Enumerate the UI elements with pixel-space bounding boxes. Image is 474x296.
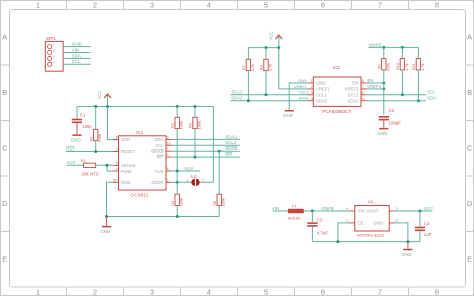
- wire AUX to R1: [67, 164, 84, 166]
- net label SDA: [72, 53, 81, 58]
- svg-text:E: E: [467, 255, 472, 264]
- ground symbol GND under rail: [100, 217, 111, 234]
- IC2 pin stubs right: [361, 83, 367, 101]
- svg-text:WAKE: WAKE: [225, 146, 238, 151]
- svg-text:SCL: SCL: [427, 90, 436, 95]
- svg-text:A: A: [2, 33, 7, 42]
- IC3 pin names: [358, 209, 383, 226]
- svg-text:IC3: IC3: [368, 200, 373, 204]
- svg-text:SCL2: SCL2: [225, 140, 237, 145]
- wire ADDR to SJ2: [172, 181, 192, 183]
- frame column ticks top: [67, 0, 409, 10]
- WP1 pin numbers 1-4: [53, 43, 55, 65]
- svg-text:3: 3: [311, 91, 313, 95]
- svg-text:100n: 100n: [82, 124, 92, 129]
- svg-text:CE: CE: [358, 221, 364, 226]
- svg-text:RESET: RESET: [121, 149, 136, 154]
- capacitor C1: [72, 107, 92, 135]
- svg-text:AO102: AO102: [288, 215, 301, 220]
- capacitor C4: [415, 211, 432, 242]
- IC1 pin numbers left: [113, 136, 117, 183]
- net label VIN: [72, 47, 79, 52]
- wire EN: [367, 82, 384, 84]
- svg-text:6: 6: [321, 288, 325, 296]
- net label SCL2 mid: [232, 90, 244, 95]
- net label GND: [72, 42, 83, 47]
- svg-text:PWM: PWM: [121, 169, 132, 174]
- svg-text:R5: R5: [188, 123, 193, 128]
- wire SCL2 long: [231, 94, 308, 96]
- wire VINFB top: [368, 47, 418, 58]
- svg-text:GND: GND: [71, 138, 82, 143]
- WP1 pad circle 2: [48, 50, 52, 54]
- WP1 pad circle 4: [48, 62, 52, 66]
- junction SDA2 at R7: [247, 99, 250, 102]
- IC1 pin stubs left: [113, 140, 119, 183]
- wire VCC rail: [77, 107, 213, 183]
- junction ground rail at GND symbol: [105, 215, 108, 218]
- wire WP1 pin3 to SDA: [63, 57, 90, 59]
- svg-text:VCC: VCC: [97, 90, 102, 99]
- wire WP1 pin1 to GND: [63, 46, 90, 48]
- resistor R9: [376, 47, 390, 114]
- wire VREF1 branch from VCC2: [279, 48, 308, 89]
- supply symbol VCC 2 (arrow): [269, 32, 283, 48]
- capacitor C3: [379, 108, 402, 128]
- svg-text:C3: C3: [389, 108, 395, 113]
- svg-text:4: 4: [207, 288, 211, 296]
- svg-text:C: C: [2, 144, 8, 153]
- resistor R2: [88, 107, 102, 152]
- svg-text:2.7k: 2.7k: [268, 64, 273, 71]
- svg-text:GND: GND: [72, 42, 83, 47]
- wire CE to ground rail: [338, 223, 349, 242]
- wire RST to RESET pin: [66, 151, 113, 153]
- svg-text:VCC: VCC: [269, 32, 274, 41]
- svg-text:SCL: SCL: [155, 143, 164, 148]
- net label SCL: [72, 59, 81, 64]
- frame column ticks bottom: [67, 287, 409, 296]
- svg-text:3: 3: [150, 288, 154, 296]
- frame row ticks left: [0, 65, 10, 232]
- svg-text:5: 5: [264, 1, 268, 10]
- junction SCL right at R10: [401, 93, 404, 96]
- svg-text:L1: L1: [292, 203, 297, 208]
- net label INT: [225, 152, 232, 157]
- svg-text:4: 4: [311, 97, 313, 101]
- svg-text:GND: GND: [316, 81, 326, 86]
- svg-text:2: 2: [53, 49, 55, 53]
- wire SDA2 from IC1: [172, 138, 240, 140]
- svg-text:NCP690LSQ28: NCP690LSQ28: [357, 233, 384, 238]
- svg-text:VDD: VDD: [121, 137, 130, 142]
- svg-text:SDA: SDA: [427, 96, 436, 101]
- junction VINFB at R10: [401, 46, 404, 49]
- svg-text:4: 4: [116, 167, 118, 171]
- junction SDA right at R11: [417, 99, 420, 102]
- svg-text:6: 6: [362, 91, 364, 95]
- net label SCL1 at IC2: [299, 90, 310, 95]
- net label SDA: [427, 96, 436, 101]
- IC3 pin numbers: [347, 207, 398, 223]
- svg-text:PCA9306DCT: PCA9306DCT: [322, 109, 351, 114]
- IC3 NCP690 box: [355, 200, 389, 237]
- IC2 pin stubs left: [307, 83, 313, 101]
- junction rail at CE: [336, 240, 339, 243]
- net label SDA2 mid: [231, 96, 243, 101]
- svg-text:2: 2: [202, 178, 204, 182]
- wire R3/R4 column through AUX and ADDR: [176, 171, 178, 194]
- svg-text:3: 3: [167, 153, 169, 157]
- IC1 pin name overlines WAKE INT: [152, 149, 163, 155]
- junction WAKE at R6 column: [218, 150, 221, 153]
- net label VINFB top: [368, 42, 381, 47]
- wire WP1 pin4 to SCL: [63, 63, 90, 65]
- net label AUX left: [67, 160, 76, 165]
- junction RST at R2: [94, 150, 97, 153]
- svg-text:R11: R11: [411, 63, 416, 70]
- net label VREF1 at IC2: [294, 84, 308, 89]
- svg-text:D: D: [2, 199, 8, 208]
- solder jumper SJ2: [187, 175, 205, 186]
- wire VREF2: [367, 88, 384, 90]
- svg-text:3: 3: [150, 1, 154, 10]
- frame column numbers top: [36, 1, 439, 10]
- svg-text:4: 4: [207, 1, 211, 10]
- frame column numbers bottom: [36, 288, 439, 296]
- net label SCL: [427, 90, 436, 95]
- net label VCC bottom: [424, 206, 433, 211]
- svg-text:C2: C2: [317, 218, 323, 223]
- svg-text:6: 6: [321, 1, 325, 10]
- svg-text:GND: GND: [374, 221, 384, 226]
- net label VIN bottom: [272, 206, 279, 211]
- svg-text:100k: 100k: [179, 121, 184, 129]
- wire WAKE from IC1: [172, 150, 240, 152]
- wire WP1 pin2 to VIN: [63, 52, 90, 54]
- junction AUX at R3/R4 column: [176, 170, 179, 173]
- svg-text:VINFB: VINFB: [368, 42, 381, 47]
- wire IC3 GND pin to rail: [395, 223, 408, 242]
- supply symbol VCC (arrow): [97, 90, 111, 106]
- net label AUX: [184, 166, 193, 171]
- svg-text:B: B: [2, 88, 7, 97]
- svg-text:8: 8: [435, 288, 439, 296]
- ground symbol GND under IC2: [283, 110, 294, 118]
- net label SDA2: [225, 134, 237, 139]
- svg-text:1: 1: [36, 288, 40, 296]
- inductor L1: [288, 203, 304, 220]
- svg-text:R9: R9: [376, 65, 381, 70]
- svg-text:10k NTC: 10k NTC: [82, 171, 99, 176]
- IC2 pin numbers: [311, 79, 364, 101]
- wire SDA2 right: [367, 100, 426, 102]
- resistor R5: [188, 107, 202, 158]
- wire AUX right of IC1: [172, 170, 200, 172]
- svg-text:R7: R7: [241, 65, 246, 70]
- wire IC1 GND pin to ground rail: [107, 182, 220, 216]
- svg-text:SCL1: SCL1: [316, 92, 327, 97]
- connector WP1: [45, 36, 63, 71]
- svg-text:R8: R8: [259, 65, 264, 70]
- svg-text:VCC: VCC: [424, 206, 433, 211]
- svg-text:9: 9: [167, 135, 169, 139]
- junction SENSE/PWM: [106, 164, 109, 167]
- svg-text:IC2: IC2: [333, 65, 341, 70]
- resistor R8: [259, 48, 273, 95]
- junction ground rail at R4: [176, 215, 179, 218]
- svg-text:EN: EN: [352, 81, 358, 86]
- IC2 PCA9306 box: [313, 65, 361, 114]
- svg-text:1: 1: [53, 43, 55, 47]
- svg-text:D: D: [467, 199, 473, 208]
- svg-text:R6: R6: [212, 201, 217, 206]
- wire L1 to IC3 VIN: [304, 210, 349, 212]
- net label WAKE: [225, 146, 238, 151]
- svg-text:IC1: IC1: [136, 130, 144, 135]
- svg-text:200k: 200k: [385, 63, 390, 71]
- wire SDA2 long: [231, 100, 308, 102]
- svg-text:1: 1: [311, 79, 313, 83]
- svg-text:R4: R4: [170, 200, 175, 206]
- WP1 pad circle 3: [48, 56, 52, 60]
- wire VIN to L1: [273, 210, 288, 212]
- svg-text:AUX: AUX: [155, 169, 164, 174]
- svg-text:2.7k: 2.7k: [250, 64, 255, 71]
- net label VINFB bottom: [321, 206, 334, 211]
- wire VCC rail 2: [248, 47, 278, 49]
- svg-text:SDA: SDA: [72, 53, 81, 58]
- svg-text:RST: RST: [66, 146, 75, 151]
- net label EN: [368, 78, 374, 83]
- junction VINFB at R9: [382, 46, 385, 49]
- svg-text:VREF1: VREF1: [316, 87, 330, 92]
- net label SCL2: [225, 140, 237, 145]
- svg-text:VINFB: VINFB: [321, 206, 334, 211]
- svg-text:ADDR: ADDR: [151, 180, 163, 185]
- wire INT from IC1: [172, 156, 240, 158]
- svg-text:4: 4: [53, 61, 55, 65]
- svg-text:SJ2: SJ2: [190, 175, 197, 179]
- svg-text:2: 2: [93, 288, 97, 296]
- svg-text:SDA2: SDA2: [347, 98, 359, 103]
- svg-text:100k: 100k: [197, 121, 202, 129]
- svg-text:CCS811: CCS811: [131, 193, 149, 199]
- resistor R7: [241, 48, 255, 101]
- svg-text:SDA2: SDA2: [225, 134, 237, 139]
- svg-text:EP: EP: [113, 178, 117, 182]
- net label GND at IC2: [298, 78, 307, 83]
- net label VREF2: [367, 84, 382, 89]
- svg-text:2: 2: [93, 1, 97, 10]
- IC2 pin names right: [345, 81, 359, 104]
- svg-text:3: 3: [53, 55, 55, 59]
- svg-text:SCL2: SCL2: [348, 92, 359, 97]
- svg-text:7: 7: [378, 1, 382, 10]
- frame row letters right: [467, 33, 473, 264]
- junction VREF2 at R9 column: [382, 87, 385, 90]
- junction rail at GND pin: [406, 240, 409, 243]
- svg-text:100pF: 100pF: [389, 120, 402, 125]
- IC2 pin names left: [316, 81, 330, 104]
- IC1 pin names right: [151, 137, 164, 185]
- svg-text:SCL2: SCL2: [232, 90, 244, 95]
- svg-text:10: 10: [167, 141, 171, 145]
- svg-text:5: 5: [264, 288, 268, 296]
- svg-text:VIN: VIN: [72, 47, 79, 52]
- wire SCL2 right: [367, 94, 426, 96]
- svg-text:7: 7: [362, 85, 364, 89]
- svg-text:8: 8: [167, 167, 169, 171]
- wire regulator ground rail: [312, 241, 420, 243]
- svg-text:5: 5: [116, 161, 118, 165]
- svg-text:4.7k: 4.7k: [420, 63, 425, 70]
- svg-text:WP1: WP1: [46, 36, 56, 41]
- svg-text:R2: R2: [88, 136, 93, 141]
- resistor R11: [411, 59, 425, 101]
- svg-text:2: 2: [311, 85, 313, 89]
- svg-text:6: 6: [116, 136, 118, 140]
- svg-text:AUX: AUX: [67, 160, 76, 165]
- svg-text:VREF2: VREF2: [345, 87, 359, 92]
- svg-text:VIN: VIN: [358, 209, 365, 214]
- svg-text:100k: 100k: [221, 198, 226, 206]
- svg-text:5: 5: [362, 97, 364, 101]
- svg-text:B: B: [467, 88, 472, 97]
- svg-text:1: 1: [36, 1, 40, 10]
- net label SDA1 at IC2: [299, 96, 310, 101]
- capacitor C2: [307, 211, 328, 242]
- wire VOUT to VCC: [395, 210, 432, 212]
- resistor R3: [170, 107, 184, 172]
- wire branch to PWM pin: [107, 165, 113, 171]
- svg-text:4: 4: [347, 207, 349, 211]
- svg-text:GND: GND: [100, 229, 111, 234]
- junction on VCC rail at VCC arrow: [106, 105, 109, 108]
- svg-text:SCL1: SCL1: [299, 90, 310, 95]
- svg-text:A: A: [467, 33, 472, 42]
- svg-text:SDA1: SDA1: [316, 98, 328, 103]
- junction on VCC rail at R2: [94, 105, 97, 108]
- junction SCL2 at R8: [265, 93, 268, 96]
- WP1 pad circle 1: [48, 45, 52, 49]
- frame row letters left: [2, 33, 8, 264]
- junction VCC2 at R8: [265, 46, 268, 49]
- junction VCC2 at VREF1 branch: [277, 46, 280, 49]
- svg-text:1uF: 1uF: [424, 232, 432, 237]
- IC3 pin stubs: [349, 211, 395, 223]
- IC1 pin names left: [121, 137, 136, 185]
- svg-text:C: C: [467, 144, 473, 153]
- svg-text:2: 2: [116, 148, 118, 152]
- wire R1 to SENSE pin: [96, 164, 113, 166]
- svg-text:SDA2: SDA2: [231, 96, 243, 101]
- junction VOUT at C4: [418, 210, 421, 213]
- op IC1 CCS811 box: [119, 130, 167, 198]
- svg-text:VREF2: VREF2: [367, 84, 382, 89]
- svg-text:R1: R1: [81, 158, 87, 163]
- svg-text:VOUT: VOUT: [367, 209, 379, 214]
- svg-text:1: 1: [187, 178, 189, 182]
- svg-text:C1: C1: [80, 113, 86, 118]
- svg-text:8: 8: [435, 1, 439, 10]
- svg-text:AUX: AUX: [184, 166, 193, 171]
- svg-text:WAKE: WAKE: [151, 149, 164, 154]
- svg-text:C4: C4: [424, 222, 430, 227]
- IC1 pin numbers right: [167, 135, 171, 182]
- svg-text:4.7uF: 4.7uF: [317, 231, 329, 236]
- wire SCL2 from IC1: [172, 144, 240, 146]
- IC1 pin stubs right: [166, 139, 172, 182]
- svg-text:INT: INT: [225, 152, 232, 157]
- svg-text:R3: R3: [170, 123, 175, 128]
- resistor R6: [212, 151, 226, 216]
- svg-text:4.7k: 4.7k: [404, 63, 409, 70]
- svg-text:GND: GND: [298, 78, 307, 83]
- svg-text:7: 7: [378, 288, 382, 296]
- resistor R1 (NTC): [81, 158, 99, 177]
- svg-text:1: 1: [167, 178, 169, 182]
- junction ADDR at R4 column: [176, 181, 179, 184]
- svg-text:100k: 100k: [179, 198, 184, 206]
- svg-text:EN: EN: [368, 78, 374, 83]
- svg-text:8: 8: [362, 79, 364, 83]
- svg-text:7: 7: [167, 147, 169, 151]
- svg-text:GND: GND: [121, 180, 131, 185]
- wire VDD from VCC rail to IC1: [108, 107, 119, 140]
- svg-text:VIN: VIN: [272, 206, 279, 211]
- junction on VCC rail at R5: [194, 105, 197, 108]
- svg-text:R10: R10: [395, 62, 400, 70]
- junction on VCC rail at R3: [176, 105, 179, 108]
- resistor R10: [395, 47, 409, 94]
- svg-text:SDA: SDA: [155, 137, 164, 142]
- wire IC2 GND pin down: [289, 83, 307, 110]
- svg-text:SENSE: SENSE: [121, 163, 136, 168]
- svg-text:GND: GND: [402, 252, 413, 257]
- resistor R4: [170, 194, 184, 216]
- svg-text:100k: 100k: [97, 134, 102, 142]
- svg-text:SDA1: SDA1: [299, 96, 310, 101]
- junction VIN at C2: [311, 210, 314, 213]
- svg-text:E: E: [2, 255, 7, 264]
- svg-text:SCL: SCL: [72, 59, 81, 64]
- svg-text:GND: GND: [283, 113, 294, 118]
- svg-text:INT: INT: [157, 155, 164, 160]
- ground symbol GND under C3: [377, 128, 388, 136]
- ground symbol GND under regulator: [402, 242, 413, 257]
- ground symbol GND under C1: [71, 134, 82, 142]
- junction EN at R9 column: [382, 82, 385, 85]
- junction INT at R5 column: [194, 156, 197, 159]
- frame row ticks right: [466, 65, 474, 232]
- svg-text:GND: GND: [377, 131, 388, 136]
- svg-text:VREF1: VREF1: [294, 84, 308, 89]
- net label RST: [66, 146, 75, 151]
- wire SJ2 pad2 to VCC column: [200, 181, 214, 183]
